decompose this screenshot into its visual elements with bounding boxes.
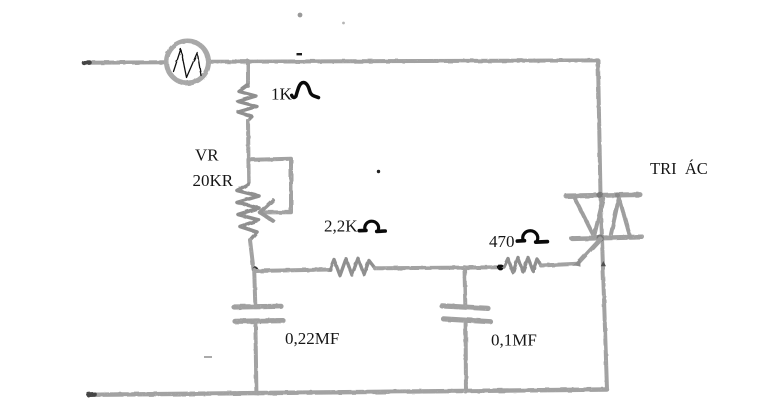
capacitor C2 0,1MF bbox=[442, 306, 491, 322]
wire right rail bbox=[598, 61, 607, 390]
wire triac gate lead bbox=[574, 239, 601, 267]
svg-text:VR: VR bbox=[195, 146, 219, 165]
svg-text:2,2K: 2,2K bbox=[324, 217, 358, 236]
svg-text:20KR: 20KR bbox=[193, 171, 234, 190]
resistor R2 2,2K (horizontal zigzag) bbox=[330, 258, 375, 275]
wire C2 bottom plate down to bottom rail bbox=[464, 321, 468, 393]
resistor R3 470 (horizontal zigzag) bbox=[504, 258, 541, 273]
svg-text:0,1MF: 0,1MF bbox=[491, 331, 537, 350]
lamp LP1 bbox=[167, 41, 209, 83]
wire node B down to C2 top plate bbox=[463, 267, 468, 305]
wire from 1K down to VR bbox=[246, 121, 251, 185]
ohm symbol for 2,2K bbox=[359, 221, 385, 231]
wiper arm loop of VR bbox=[249, 159, 292, 221]
triac TRI AC bbox=[566, 192, 642, 242]
wire 470 to triac gate bbox=[541, 264, 578, 266]
wire from VR down to node A bbox=[250, 240, 254, 269]
wire bottom rail bbox=[89, 390, 608, 395]
wire node A down to C1 top plate bbox=[254, 270, 255, 305]
triac cathode tick mark bbox=[601, 261, 606, 266]
wire top rail bbox=[84, 60, 598, 62]
svg-text:0,22MF: 0,22MF bbox=[285, 329, 339, 348]
ohm symbol for 470 bbox=[517, 231, 547, 242]
ohm symbol for 1K bbox=[292, 83, 319, 98]
capacitor C1 0,22MF bbox=[234, 306, 283, 321]
potentiometer VR 20KR (vertical zigzag) bbox=[237, 184, 259, 240]
wire node A to 2,2K bbox=[256, 270, 331, 272]
wire from top rail down to 1K bbox=[246, 61, 250, 86]
wire C1 bottom plate down to bottom rail bbox=[255, 322, 256, 393]
svg-text:470: 470 bbox=[489, 232, 515, 251]
stray specks bbox=[204, 13, 380, 358]
node A junction dot bbox=[252, 267, 258, 273]
node B junction dot bbox=[497, 264, 503, 270]
svg-text:TRI ÁC: TRI ÁC bbox=[650, 159, 708, 178]
svg-text:1K: 1K bbox=[271, 85, 293, 104]
resistor R1 1K (vertical zigzag) bbox=[238, 85, 257, 121]
wire 2,2K to node B bbox=[375, 267, 500, 268]
